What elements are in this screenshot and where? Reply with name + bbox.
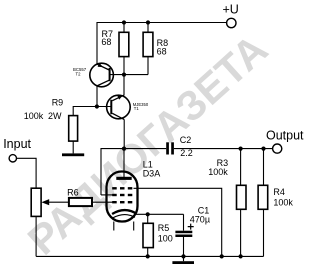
resistor R3 [237,185,247,209]
wire pot bottom [35,216,37,256]
wire R7 bottom lead [123,57,125,75]
tube grid g2 row [112,194,132,196]
wire R9 bottom lead [72,141,74,153]
svg-text:100k: 100k [24,111,44,121]
svg-text:Output: Output [266,129,304,143]
wire R5 top lead [147,214,149,223]
tube grid g3 row [112,187,132,189]
wire R9 to T1 base [73,107,110,116]
ground (R9) [62,153,84,156]
svg-text:R9: R9 [52,97,64,107]
node R3 top [239,147,243,151]
wire ground rail [36,255,263,257]
svg-text:R4: R4 [273,187,285,197]
wire T2 base node [110,74,148,76]
heater stub left [113,222,115,231]
resistor R5 [143,223,153,247]
wire T2 collector [96,86,98,107]
svg-text:Input: Input [3,137,31,151]
wire ground stub [183,256,185,261]
terminal Input [9,155,16,162]
wire C1 bottom lead [183,237,185,256]
wire +U rail [97,23,227,65]
tube cathode [112,210,135,214]
svg-text:R5: R5 [158,223,170,233]
node T1 base [95,104,99,108]
wire anode lead [123,149,125,177]
heater stub right [133,222,135,231]
svg-text:68: 68 [101,37,111,47]
wire g2 strap into tube [101,194,114,196]
node C1 bottom [181,254,185,258]
node g3 bottom [220,254,224,258]
wire R3 bottom lead [240,209,242,256]
wire R6 to grid [92,201,114,203]
node R3 bottom [239,254,243,258]
svg-text:T1: T1 [134,106,140,111]
node T2 base [122,73,126,77]
ground (main) [172,261,194,264]
node anode [122,147,126,151]
wire R4 bottom lead [263,209,265,256]
wire T1 collector [123,120,125,149]
tube heater [113,215,135,218]
svg-text:T2: T2 [76,71,82,76]
node R5 bottom [146,254,150,258]
node R4 top [261,147,265,151]
svg-text:2W: 2W [48,111,62,121]
node R8 top [146,20,150,24]
wire R5 bottom lead [147,248,149,257]
svg-text:D3A: D3A [143,168,161,178]
wire C2 to output [174,148,273,150]
potentiometer wiper [41,199,49,205]
wire anode node horizontal [101,149,166,195]
svg-text:+U: +U [223,3,239,17]
transistor Q2 BC557 [73,63,113,87]
svg-text:470µ: 470µ [190,215,210,225]
potentiometer body [31,188,41,216]
resistor R4 [258,185,268,209]
wire input to pot [17,158,37,188]
capacitor C2 [166,142,169,154]
terminal +U [227,18,236,27]
svg-text:C2: C2 [180,135,192,145]
svg-text:100k: 100k [273,198,293,208]
tube anode [116,177,131,180]
svg-text:68: 68 [157,47,167,57]
wire cathode lead [134,213,184,215]
wire R4 top lead [263,149,265,186]
svg-text:100k: 100k [208,167,228,177]
transistor Q1 MJE350 [107,95,149,120]
svg-text:100: 100 [158,233,173,243]
wire wiper to R6 [49,201,69,203]
wire R7 top lead [123,23,125,33]
terminal Output [273,144,282,153]
wire R8 bottom lead [147,57,149,75]
capacitor C1 [175,231,192,234]
svg-text:2.2: 2.2 [180,148,193,158]
resistor R6 [69,198,92,206]
svg-text:R6: R6 [67,188,79,198]
node R7 top [122,20,126,24]
resistor R8 [143,32,153,56]
wire C1 top lead [183,214,185,230]
resistor R7 [119,32,129,56]
resistor R9 [69,116,78,142]
wire R8 top lead [147,23,149,33]
tube L1 D3A envelope [107,172,138,222]
wire g3 strap [134,188,222,256]
wire R3 top lead [240,149,242,186]
node cathode [146,212,150,216]
wire node to T1 emitter [123,75,125,95]
tube grid g1 row [112,201,132,203]
